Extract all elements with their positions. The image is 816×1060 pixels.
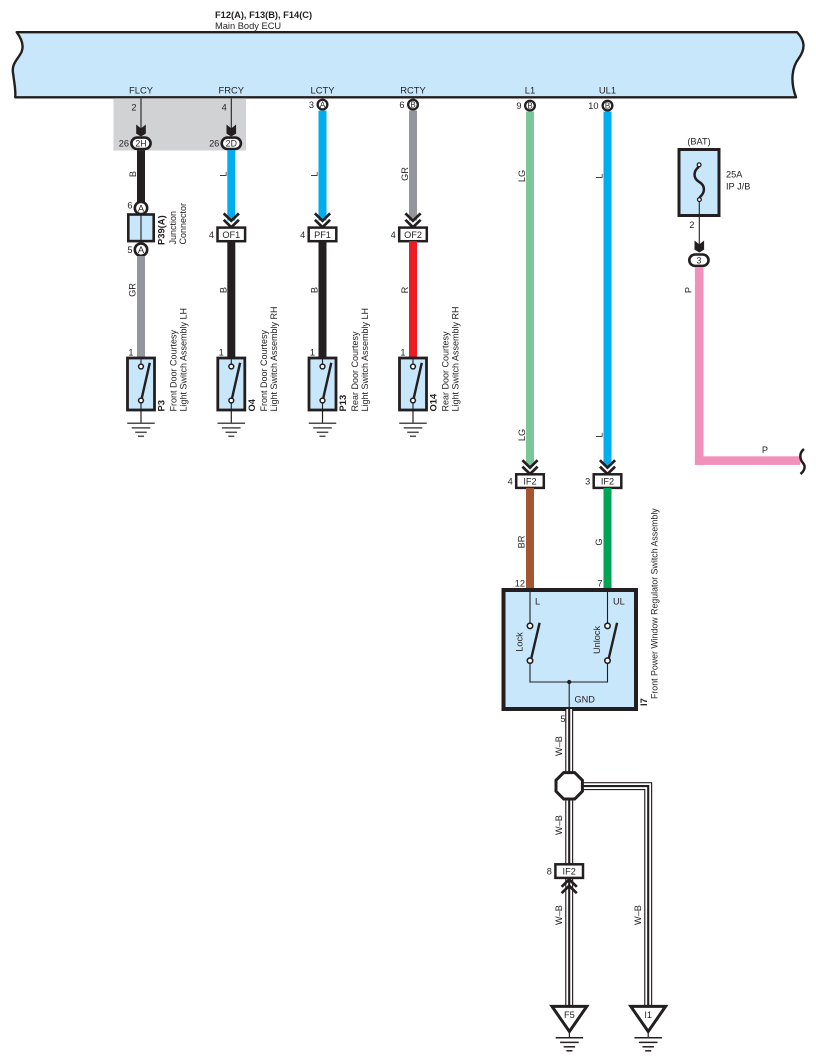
svg-text:Rear Door Courtesy: Rear Door Courtesy xyxy=(441,331,451,412)
wire BR xyxy=(526,488,534,590)
svg-text:GND: GND xyxy=(575,695,596,705)
svg-text:FRCY: FRCY xyxy=(219,85,245,96)
chevron into OF2 xyxy=(405,213,420,220)
connector 2H xyxy=(131,138,150,149)
svg-text:I7: I7 xyxy=(638,698,649,706)
wire fuse to 3 xyxy=(698,202,700,247)
svg-text:FLCY: FLCY xyxy=(129,85,154,96)
svg-text:LCTY: LCTY xyxy=(311,85,336,96)
svg-text:BR: BR xyxy=(517,535,527,548)
svg-text:Front Power Window Regulator S: Front Power Window Regulator Switch Asse… xyxy=(650,508,660,699)
pin 9 circle B xyxy=(525,101,535,111)
svg-text:A: A xyxy=(138,244,145,255)
connector OF2 xyxy=(399,228,427,242)
gray highlight box xyxy=(114,98,247,150)
switch P3 contacts xyxy=(140,358,142,364)
svg-text:4: 4 xyxy=(222,103,227,113)
svg-text:L: L xyxy=(310,171,320,176)
svg-text:W–B: W–B xyxy=(633,905,643,925)
svg-text:I1: I1 xyxy=(644,1010,652,1020)
svg-text:B: B xyxy=(410,100,415,109)
svg-text:B: B xyxy=(128,171,138,177)
svg-text:L: L xyxy=(535,597,540,607)
svg-text:(BAT): (BAT) xyxy=(687,137,710,147)
ground lead O4 xyxy=(230,410,232,423)
connector IF2 pin8 xyxy=(555,864,583,878)
svg-text:PF1: PF1 xyxy=(314,230,331,240)
switch O14 contacts xyxy=(412,358,414,364)
ground F5 xyxy=(556,1037,584,1039)
pin 5 circle A xyxy=(135,244,147,256)
switch P13 box xyxy=(309,358,336,410)
svg-text:O4: O4 xyxy=(246,398,257,411)
svg-text:Front Door Courtesy: Front Door Courtesy xyxy=(169,329,179,411)
svg-text:Junction: Junction xyxy=(168,211,178,245)
chevron out of IF2 xyxy=(562,879,577,886)
svg-text:IP J/B: IP J/B xyxy=(726,182,750,192)
svg-text:GR: GR xyxy=(400,167,410,181)
svg-text:Connector: Connector xyxy=(178,203,188,245)
wire W-B (GND to splice) xyxy=(565,709,573,775)
ground point F5 xyxy=(552,1006,587,1031)
pin 10 circle B xyxy=(603,101,613,111)
svg-text:12: 12 xyxy=(515,579,525,589)
wire FLCY pin2 xyxy=(140,99,142,131)
wire W-B branch (splice to I1) xyxy=(581,786,648,1006)
arrow into 2H xyxy=(136,125,146,137)
connector OF1 xyxy=(218,228,246,242)
wire P horizontal xyxy=(695,456,801,465)
ground P13 xyxy=(309,422,337,424)
svg-text:B: B xyxy=(605,101,610,110)
svg-text:LG: LG xyxy=(517,429,527,441)
ground point I1 xyxy=(631,1006,666,1031)
svg-text:26: 26 xyxy=(209,139,219,149)
svg-text:26: 26 xyxy=(119,139,129,149)
connector IF2 pin4 xyxy=(516,474,544,488)
svg-text:8: 8 xyxy=(547,867,552,877)
svg-text:Light Switch Assembly LH: Light Switch Assembly LH xyxy=(179,308,189,412)
svg-text:4: 4 xyxy=(209,230,214,240)
pin 6 circle B xyxy=(408,100,418,110)
svg-text:P: P xyxy=(684,287,694,293)
svg-text:O14: O14 xyxy=(428,393,439,412)
svg-text:1: 1 xyxy=(310,348,315,358)
arrow into 3 xyxy=(695,241,705,253)
svg-text:L: L xyxy=(595,432,605,437)
connector 2D xyxy=(222,138,241,149)
fuse box xyxy=(679,150,719,216)
svg-text:W–B: W–B xyxy=(554,815,564,835)
svg-text:B: B xyxy=(310,287,320,293)
svg-text:3: 3 xyxy=(585,477,590,487)
unlock switch xyxy=(609,623,618,660)
wire into switch O14 xyxy=(409,241,417,358)
wire into switch P13 xyxy=(319,241,327,358)
svg-text:4: 4 xyxy=(391,230,396,240)
switch O4 box xyxy=(218,358,245,410)
wire LG xyxy=(526,112,534,466)
chevron into OF1 xyxy=(224,213,239,220)
svg-text:Unlock: Unlock xyxy=(592,626,602,654)
switch P13 contacts xyxy=(322,358,324,364)
wire L (FRCY) xyxy=(227,150,235,220)
svg-text:GR: GR xyxy=(128,283,138,297)
wire G xyxy=(604,488,612,590)
svg-text:B: B xyxy=(218,287,228,293)
svg-text:Light Switch Assembly LH: Light Switch Assembly LH xyxy=(360,308,370,412)
svg-text:7: 7 xyxy=(597,579,602,589)
splice octagon xyxy=(556,773,582,799)
wire W-B (splice to IF2) xyxy=(565,797,573,865)
switch O4 contacts xyxy=(230,358,232,364)
lock switch xyxy=(531,623,540,660)
svg-text:P: P xyxy=(762,445,768,455)
svg-text:Light Switch Assembly RH: Light Switch Assembly RH xyxy=(451,306,461,411)
svg-text:A: A xyxy=(320,100,326,109)
Main Body ECU band xyxy=(13,32,804,97)
svg-text:G: G xyxy=(594,538,604,545)
svg-text:P13: P13 xyxy=(337,395,348,412)
ground O4 xyxy=(218,422,246,424)
switch P3 box xyxy=(128,358,155,410)
svg-text:RCTY: RCTY xyxy=(400,85,426,96)
svg-text:P39(A): P39(A) xyxy=(156,215,167,245)
wire GR (RCTY) xyxy=(409,111,417,221)
svg-text:10: 10 xyxy=(588,101,598,111)
arrow into 2D xyxy=(227,125,237,137)
chevron into IF2 (4) xyxy=(522,460,537,467)
unlock switch lead xyxy=(607,592,609,623)
break squiggle xyxy=(800,449,804,474)
junction connector P39(A) xyxy=(128,215,153,242)
svg-text:L1: L1 xyxy=(525,85,535,96)
internal wires to GND xyxy=(530,664,608,682)
svg-text:Front Door Courtesy: Front Door Courtesy xyxy=(259,329,269,411)
svg-text:IF2: IF2 xyxy=(601,477,614,487)
svg-text:2H: 2H xyxy=(135,138,146,148)
svg-text:Rear Door Courtesy: Rear Door Courtesy xyxy=(350,331,360,412)
chevron into PF1 xyxy=(315,213,330,220)
pin 6 circle A xyxy=(135,202,147,214)
svg-text:4: 4 xyxy=(508,477,513,487)
svg-text:W–B: W–B xyxy=(554,736,564,756)
svg-text:OF1: OF1 xyxy=(222,230,240,240)
wire L (UL1) xyxy=(604,112,612,466)
svg-text:B: B xyxy=(527,101,532,110)
svg-text:5: 5 xyxy=(127,245,132,255)
svg-text:IF2: IF2 xyxy=(563,867,576,877)
svg-text:2: 2 xyxy=(131,103,136,113)
ground O14 xyxy=(399,422,427,424)
svg-text:3: 3 xyxy=(309,100,314,110)
wire P vertical xyxy=(695,267,704,465)
svg-text:Light Switch Assembly RH: Light Switch Assembly RH xyxy=(269,306,279,411)
switch O14 box xyxy=(400,358,427,410)
svg-text:Main Body ECU: Main Body ECU xyxy=(215,21,281,31)
svg-text:IF2: IF2 xyxy=(523,477,536,487)
svg-text:UL1: UL1 xyxy=(599,85,616,96)
I7 box xyxy=(504,590,637,709)
connector 3 xyxy=(689,255,708,266)
svg-text:6: 6 xyxy=(127,201,132,211)
svg-text:9: 9 xyxy=(516,101,521,111)
chevron into IF2 (3) xyxy=(600,460,615,467)
ground lead P13 xyxy=(322,410,324,423)
svg-text:W–B: W–B xyxy=(554,905,564,925)
svg-text:3: 3 xyxy=(696,255,701,265)
svg-text:2D: 2D xyxy=(226,138,237,148)
fuse element xyxy=(695,167,704,198)
ground lead O14 xyxy=(412,410,414,423)
svg-text:2: 2 xyxy=(689,220,694,230)
connector IF2 pin3 xyxy=(594,474,622,488)
ground P3 xyxy=(127,422,155,424)
wire FRCY pin4 xyxy=(230,99,232,131)
svg-text:Lock: Lock xyxy=(515,632,525,652)
svg-text:L: L xyxy=(218,171,228,176)
svg-text:1: 1 xyxy=(128,348,133,358)
svg-text:P3: P3 xyxy=(156,400,167,411)
lock switch lead xyxy=(529,592,531,623)
svg-text:R: R xyxy=(400,286,410,293)
svg-text:UL: UL xyxy=(613,597,625,607)
svg-text:5: 5 xyxy=(560,714,565,724)
svg-text:F5: F5 xyxy=(564,1010,575,1020)
svg-text:1: 1 xyxy=(219,348,224,358)
ground I1 xyxy=(634,1037,662,1039)
svg-text:6: 6 xyxy=(399,100,404,110)
wire L (LCTY) xyxy=(319,111,327,221)
svg-text:1: 1 xyxy=(400,348,405,358)
svg-text:F12(A), F13(B), F14(C): F12(A), F13(B), F14(C) xyxy=(215,10,312,20)
svg-text:4: 4 xyxy=(300,230,305,240)
wire into switch O4 xyxy=(227,241,235,358)
wire B (FLCY) xyxy=(137,150,145,202)
wire W-B (IF2 to F5) xyxy=(565,878,573,1007)
junction dot xyxy=(567,680,571,684)
svg-text:L: L xyxy=(595,173,605,178)
connector PF1 xyxy=(309,228,337,242)
pin 3 circle A xyxy=(318,100,328,110)
svg-text:OF2: OF2 xyxy=(404,230,422,240)
svg-text:25A: 25A xyxy=(726,170,743,180)
ground lead P3 xyxy=(140,410,142,423)
svg-text:A: A xyxy=(138,202,145,213)
svg-text:LG: LG xyxy=(517,170,527,182)
wire into switch P3 xyxy=(137,256,145,358)
